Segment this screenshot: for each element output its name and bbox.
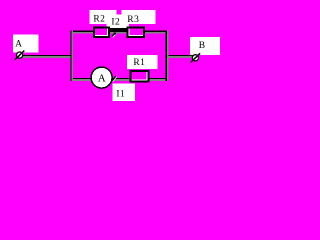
resistor R2 xyxy=(94,28,109,38)
ammeter U1 circle xyxy=(91,67,112,88)
label box I2 xyxy=(107,14,130,28)
svg-text:R3: R3 xyxy=(127,15,139,25)
wire top branch horizontal xyxy=(70,31,168,32)
label box R2 xyxy=(89,10,116,24)
label box R3 xyxy=(122,10,156,24)
svg-text:B: B xyxy=(199,41,206,51)
node I2 current marker xyxy=(112,33,116,37)
svg-text:R1: R1 xyxy=(133,58,145,68)
svg-text:A: A xyxy=(15,40,22,50)
wire right vertical xyxy=(166,31,167,82)
label box B xyxy=(190,37,220,55)
label box A xyxy=(13,35,39,53)
wire left vertical xyxy=(70,31,71,82)
wire node I2 segment over white box xyxy=(110,28,127,32)
label box I1 xyxy=(112,84,135,101)
node I1 current marker xyxy=(112,76,117,82)
terminal A xyxy=(15,51,24,60)
svg-text:I1: I1 xyxy=(116,90,125,100)
svg-text:A: A xyxy=(98,73,106,85)
svg-text:I2: I2 xyxy=(111,18,120,28)
resistor R3 xyxy=(128,28,145,38)
label box R1 xyxy=(127,55,157,69)
svg-text:R2: R2 xyxy=(93,15,105,25)
wire from terminal A xyxy=(23,55,73,56)
wire bottom branch horizontal xyxy=(70,78,168,79)
wire to terminal B xyxy=(166,55,193,56)
resistor R1 xyxy=(131,71,149,81)
terminal B xyxy=(191,53,201,62)
